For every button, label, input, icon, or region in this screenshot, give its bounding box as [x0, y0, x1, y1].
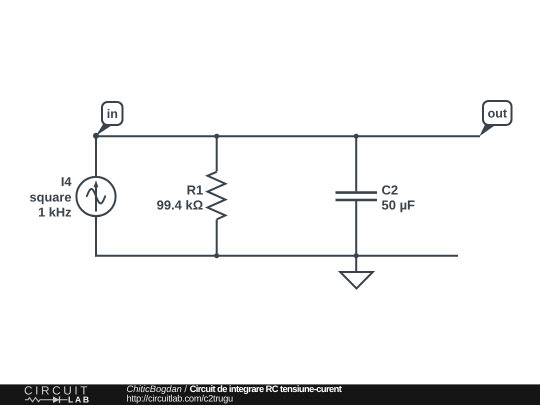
wire bottom rail	[95, 255, 458, 257]
node dot junction R1 top	[214, 134, 219, 139]
svg-text:square: square	[30, 189, 72, 204]
svg-text:99.4 kΩ: 99.4 kΩ	[157, 198, 204, 213]
flag out box	[483, 101, 512, 125]
capacitor C2 leads	[355, 136, 357, 191]
current source I4 labels	[30, 174, 73, 220]
wire top rail (in node to out)	[96, 135, 480, 137]
svg-text:ChiticBogdan / Circuit de inte: ChiticBogdan / Circuit de integrare RC t…	[127, 384, 342, 394]
svg-text:in: in	[107, 107, 118, 121]
svg-text:50 µF: 50 µF	[382, 198, 416, 213]
svg-text:I4: I4	[61, 174, 73, 189]
node dot junction ground	[354, 253, 359, 258]
node dot in	[93, 133, 99, 139]
current source I4 body	[76, 177, 115, 216]
svg-text:LAB: LAB	[68, 394, 91, 404]
capacitor C2 labels	[382, 182, 416, 212]
svg-text:C2: C2	[382, 182, 399, 197]
footer logo diode	[53, 396, 60, 403]
footer bar	[0, 384, 540, 405]
flag in tail	[96, 124, 115, 136]
flag in box	[102, 102, 123, 125]
ground stem	[355, 256, 357, 272]
resistor R1 labels	[157, 182, 204, 212]
wire left vertical upper	[95, 135, 97, 177]
svg-text:out: out	[488, 107, 508, 121]
resistor R1 leads	[216, 136, 218, 171]
flag out tail	[480, 124, 498, 137]
capacitor C2 plates	[336, 191, 378, 194]
ground symbol	[340, 272, 373, 289]
wire left vertical lower	[95, 216, 97, 257]
node dot junction C2 top	[354, 134, 359, 139]
svg-text:R1: R1	[187, 182, 204, 197]
svg-text:http://circuitlab.com/c2trugu: http://circuitlab.com/c2trugu	[127, 394, 234, 404]
footer logo resistor zigzag and diode	[25, 398, 68, 402]
resistor R1 zigzag body	[208, 172, 226, 220]
node dot junction R1 bottom	[214, 253, 219, 258]
svg-text:1 kHz: 1 kHz	[38, 205, 71, 220]
